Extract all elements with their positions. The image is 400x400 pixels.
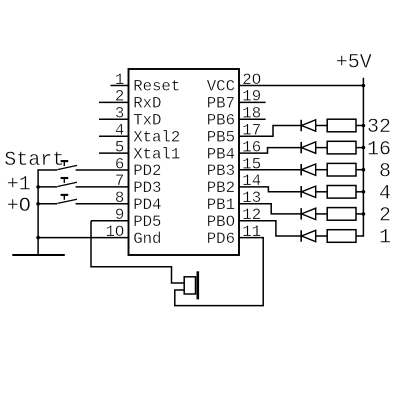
- LED weight label 8: [379, 160, 391, 183]
- LED D3: [301, 164, 327, 175]
- pin 13 number: [242, 189, 261, 207]
- svg-text:13: 13: [242, 189, 261, 207]
- pin 2 lead wire: [99, 101, 129, 103]
- LED D4: [301, 186, 327, 197]
- pin 12 number: [242, 206, 261, 224]
- junction node row 16: [362, 146, 366, 150]
- pin 3 number: [115, 105, 124, 123]
- svg-text:PD2: PD2: [133, 162, 161, 180]
- pin 15 label PB3: [207, 162, 235, 180]
- speaker LS1: [184, 271, 198, 299]
- pin 4 label Xtal2: [133, 128, 180, 146]
- resistor R1: [327, 119, 363, 132]
- label +0: [7, 195, 31, 218]
- pin 15 number: [242, 155, 261, 173]
- pin 2 label RxD: [133, 95, 161, 113]
- pin 16 lead wire: [239, 148, 302, 154]
- pin 6 lead wire: [76, 169, 129, 171]
- svg-text:15: 15: [242, 155, 261, 173]
- LED D6: [301, 230, 327, 241]
- svg-text:3: 3: [115, 105, 124, 123]
- microcontroller U1 body: [129, 69, 240, 255]
- svg-text:+5V: +5V: [336, 52, 372, 75]
- svg-text:1: 1: [379, 227, 391, 250]
- pin 5 label Xtal1: [133, 145, 180, 163]
- switch SW2 +1: [38, 178, 77, 187]
- pin 18 label PB6: [207, 112, 235, 130]
- pin 9 label PD5: [133, 213, 161, 231]
- resistor R3: [327, 163, 363, 176]
- pin 13 label PB1: [207, 196, 235, 214]
- pin 14 label PB2: [207, 179, 235, 197]
- pin 8 lead wire: [76, 203, 129, 205]
- junction node row 8: [362, 168, 366, 172]
- junction node +0: [36, 202, 40, 206]
- svg-text:VCC: VCC: [207, 78, 235, 96]
- pin 11 label PD6: [207, 230, 235, 248]
- svg-text:PB7: PB7: [207, 95, 235, 113]
- pin 13 lead wire: [239, 204, 302, 214]
- label Start: [4, 149, 64, 172]
- pin 6 label PD2: [133, 162, 161, 180]
- pin 20 lead wire: [239, 85, 363, 87]
- svg-text:18: 18: [242, 105, 261, 123]
- pin 3 label TxD: [133, 112, 161, 130]
- svg-text:6: 6: [115, 155, 124, 173]
- svg-text:PB2: PB2: [207, 179, 235, 197]
- svg-text:2O: 2O: [242, 71, 261, 89]
- LED weight label 1: [379, 227, 391, 250]
- label +1: [7, 173, 31, 196]
- wire PD5 to speaker: [91, 221, 184, 283]
- pin 20 label VCC: [207, 78, 235, 96]
- pin 19 label PB7: [207, 95, 235, 113]
- junction node row 4: [362, 190, 366, 194]
- svg-text:16: 16: [367, 138, 391, 161]
- junction node Gnd: [36, 236, 40, 240]
- svg-text:PB1: PB1: [207, 196, 235, 214]
- svg-text:RxD: RxD: [133, 95, 161, 113]
- pin 18 lead wire: [239, 118, 266, 120]
- LED weight label 4: [379, 183, 391, 206]
- svg-text:12: 12: [242, 206, 261, 224]
- resistor R2: [327, 141, 363, 154]
- pin 8 label PD4: [133, 196, 161, 214]
- pin 3 lead wire: [99, 118, 129, 120]
- pin 7 label PD3: [133, 179, 161, 197]
- resistor R5: [327, 208, 363, 221]
- svg-text:+O: +O: [7, 195, 31, 218]
- resistor R4: [327, 186, 363, 199]
- LED D5: [301, 208, 327, 219]
- svg-text:Reset: Reset: [133, 78, 180, 96]
- ground symbol: [12, 254, 65, 256]
- pin 18 number: [242, 105, 261, 123]
- svg-text:+1: +1: [7, 173, 31, 196]
- pin 7 number: [115, 172, 124, 190]
- resistor R6: [327, 230, 363, 243]
- pin 16 label PB4: [207, 145, 235, 163]
- pin 14 number: [242, 172, 261, 190]
- svg-text:11: 11: [242, 223, 261, 241]
- pin 2 number: [115, 88, 124, 106]
- pin 11 number: [242, 223, 261, 241]
- pin 5 lead wire: [99, 152, 129, 154]
- svg-text:2: 2: [115, 88, 124, 106]
- svg-text:8: 8: [115, 189, 124, 207]
- junction node row 2: [362, 212, 366, 216]
- pin 15 lead wire: [239, 169, 302, 171]
- pin 10 number: [105, 223, 124, 241]
- ground bus wire: [37, 169, 39, 255]
- svg-text:1O: 1O: [105, 223, 124, 241]
- svg-text:PD4: PD4: [133, 196, 161, 214]
- pin 17 number: [242, 122, 261, 140]
- LED weight label 16: [367, 138, 391, 161]
- pin 10 lead wire: [38, 237, 128, 239]
- junction node +1: [36, 185, 40, 189]
- svg-text:PD5: PD5: [133, 213, 161, 231]
- pin 11 lead wire: [175, 238, 263, 306]
- LED D1: [301, 120, 327, 131]
- svg-text:Xtal2: Xtal2: [133, 128, 180, 146]
- pin 17 label PB5: [207, 128, 235, 146]
- switch SW3 +0: [38, 195, 77, 204]
- svg-text:PD6: PD6: [207, 230, 235, 248]
- +5V rail wire: [362, 78, 364, 237]
- svg-text:2: 2: [379, 205, 391, 228]
- pin 19 lead wire: [239, 101, 266, 103]
- svg-text:19: 19: [242, 88, 261, 106]
- pin 1 number: [115, 71, 124, 89]
- pin 4 lead wire: [99, 135, 129, 137]
- svg-text:8: 8: [379, 160, 391, 183]
- pin 8 number: [115, 189, 124, 207]
- pin 17 lead wire: [239, 126, 302, 137]
- pin 19 number: [242, 88, 261, 106]
- pin 12 label PBO: [207, 213, 235, 231]
- svg-text:TxD: TxD: [133, 112, 161, 130]
- LED weight label 32: [367, 116, 391, 139]
- svg-text:PB4: PB4: [207, 145, 235, 163]
- pin 1 label Reset: [133, 78, 180, 96]
- svg-text:PBO: PBO: [207, 213, 235, 231]
- svg-text:5: 5: [115, 138, 124, 156]
- svg-text:17: 17: [242, 122, 261, 140]
- pin 9 lead wire: [91, 220, 129, 222]
- svg-text:PB6: PB6: [207, 112, 235, 130]
- svg-text:Gnd: Gnd: [133, 230, 161, 248]
- svg-text:Start: Start: [4, 149, 64, 172]
- pin 1 lead wire: [111, 85, 129, 87]
- pin 9 number: [115, 206, 124, 224]
- junction node row 32: [362, 124, 366, 128]
- pin 4 number: [115, 122, 124, 140]
- pin 5 number: [115, 138, 124, 156]
- LED D2: [301, 142, 327, 153]
- pin 20 number: [242, 71, 261, 89]
- LED weight label 2: [379, 205, 391, 228]
- pin 16 number: [242, 138, 261, 156]
- pin 14 lead wire: [239, 187, 302, 192]
- svg-text:1: 1: [115, 71, 124, 89]
- svg-text:PD3: PD3: [133, 179, 161, 197]
- svg-text:PB5: PB5: [207, 128, 235, 146]
- svg-text:7: 7: [115, 172, 124, 190]
- svg-text:4: 4: [379, 183, 391, 206]
- svg-text:PB3: PB3: [207, 162, 235, 180]
- pin 6 number: [115, 155, 124, 173]
- +5V label: [336, 52, 372, 75]
- pin 7 lead wire: [76, 186, 129, 188]
- svg-text:16: 16: [242, 138, 261, 156]
- pin 10 label Gnd: [133, 230, 161, 248]
- junction node VCC rail: [362, 84, 366, 88]
- svg-text:4: 4: [115, 122, 124, 140]
- switch SW1 Start: [38, 161, 77, 170]
- svg-text:Xtal1: Xtal1: [133, 145, 180, 163]
- svg-text:9: 9: [115, 206, 124, 224]
- pin 12 lead wire: [239, 221, 302, 236]
- svg-text:14: 14: [242, 172, 261, 190]
- svg-text:32: 32: [367, 116, 391, 139]
